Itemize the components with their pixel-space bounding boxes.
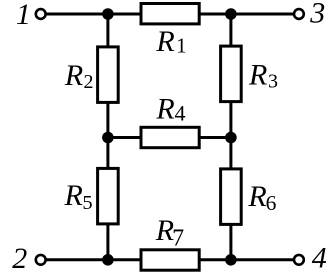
svg-text:3: 3 — [268, 70, 278, 92]
resistor R3 — [221, 46, 278, 102]
terminal 3 — [294, 0, 325, 30]
terminal 1 — [16, 0, 46, 31]
resistor R1 — [141, 4, 199, 59]
wire bottom (node 2 to node 4) — [45, 258, 294, 261]
resistor R5 — [64, 168, 119, 224]
svg-text:R: R — [64, 179, 83, 212]
resistor R7 — [141, 214, 199, 270]
node junction top-left — [102, 8, 114, 20]
resistor R2 — [64, 47, 118, 103]
svg-text:2: 2 — [84, 71, 94, 93]
node junction top-right — [225, 8, 237, 20]
svg-text:6: 6 — [266, 191, 277, 215]
node junction bottom-right — [225, 254, 237, 266]
wire left vertical — [106, 14, 109, 260]
svg-text:R: R — [247, 180, 266, 213]
node junction middle-right — [225, 132, 237, 144]
svg-text:7: 7 — [172, 226, 184, 252]
svg-text:4: 4 — [312, 242, 327, 275]
wire top (node 1 to node 3) — [45, 13, 294, 16]
svg-text:3: 3 — [309, 0, 325, 30]
svg-text:5: 5 — [82, 192, 92, 214]
node junction bottom-left — [102, 254, 114, 266]
resistor R6 — [221, 169, 277, 225]
node junction middle-left — [102, 132, 114, 144]
svg-text:1: 1 — [16, 0, 31, 31]
svg-text:R: R — [248, 58, 267, 91]
svg-text:R: R — [155, 93, 174, 126]
terminal 4 — [294, 242, 327, 275]
svg-text:R: R — [64, 59, 83, 92]
wire middle (between middle nodes) — [108, 136, 231, 139]
wire right vertical — [229, 14, 232, 260]
svg-text:2: 2 — [12, 242, 27, 275]
svg-text:1: 1 — [176, 34, 187, 58]
resistor R4 — [141, 93, 199, 148]
svg-text:R: R — [155, 25, 174, 58]
svg-text:4: 4 — [175, 101, 186, 126]
terminal 2 — [12, 242, 45, 275]
